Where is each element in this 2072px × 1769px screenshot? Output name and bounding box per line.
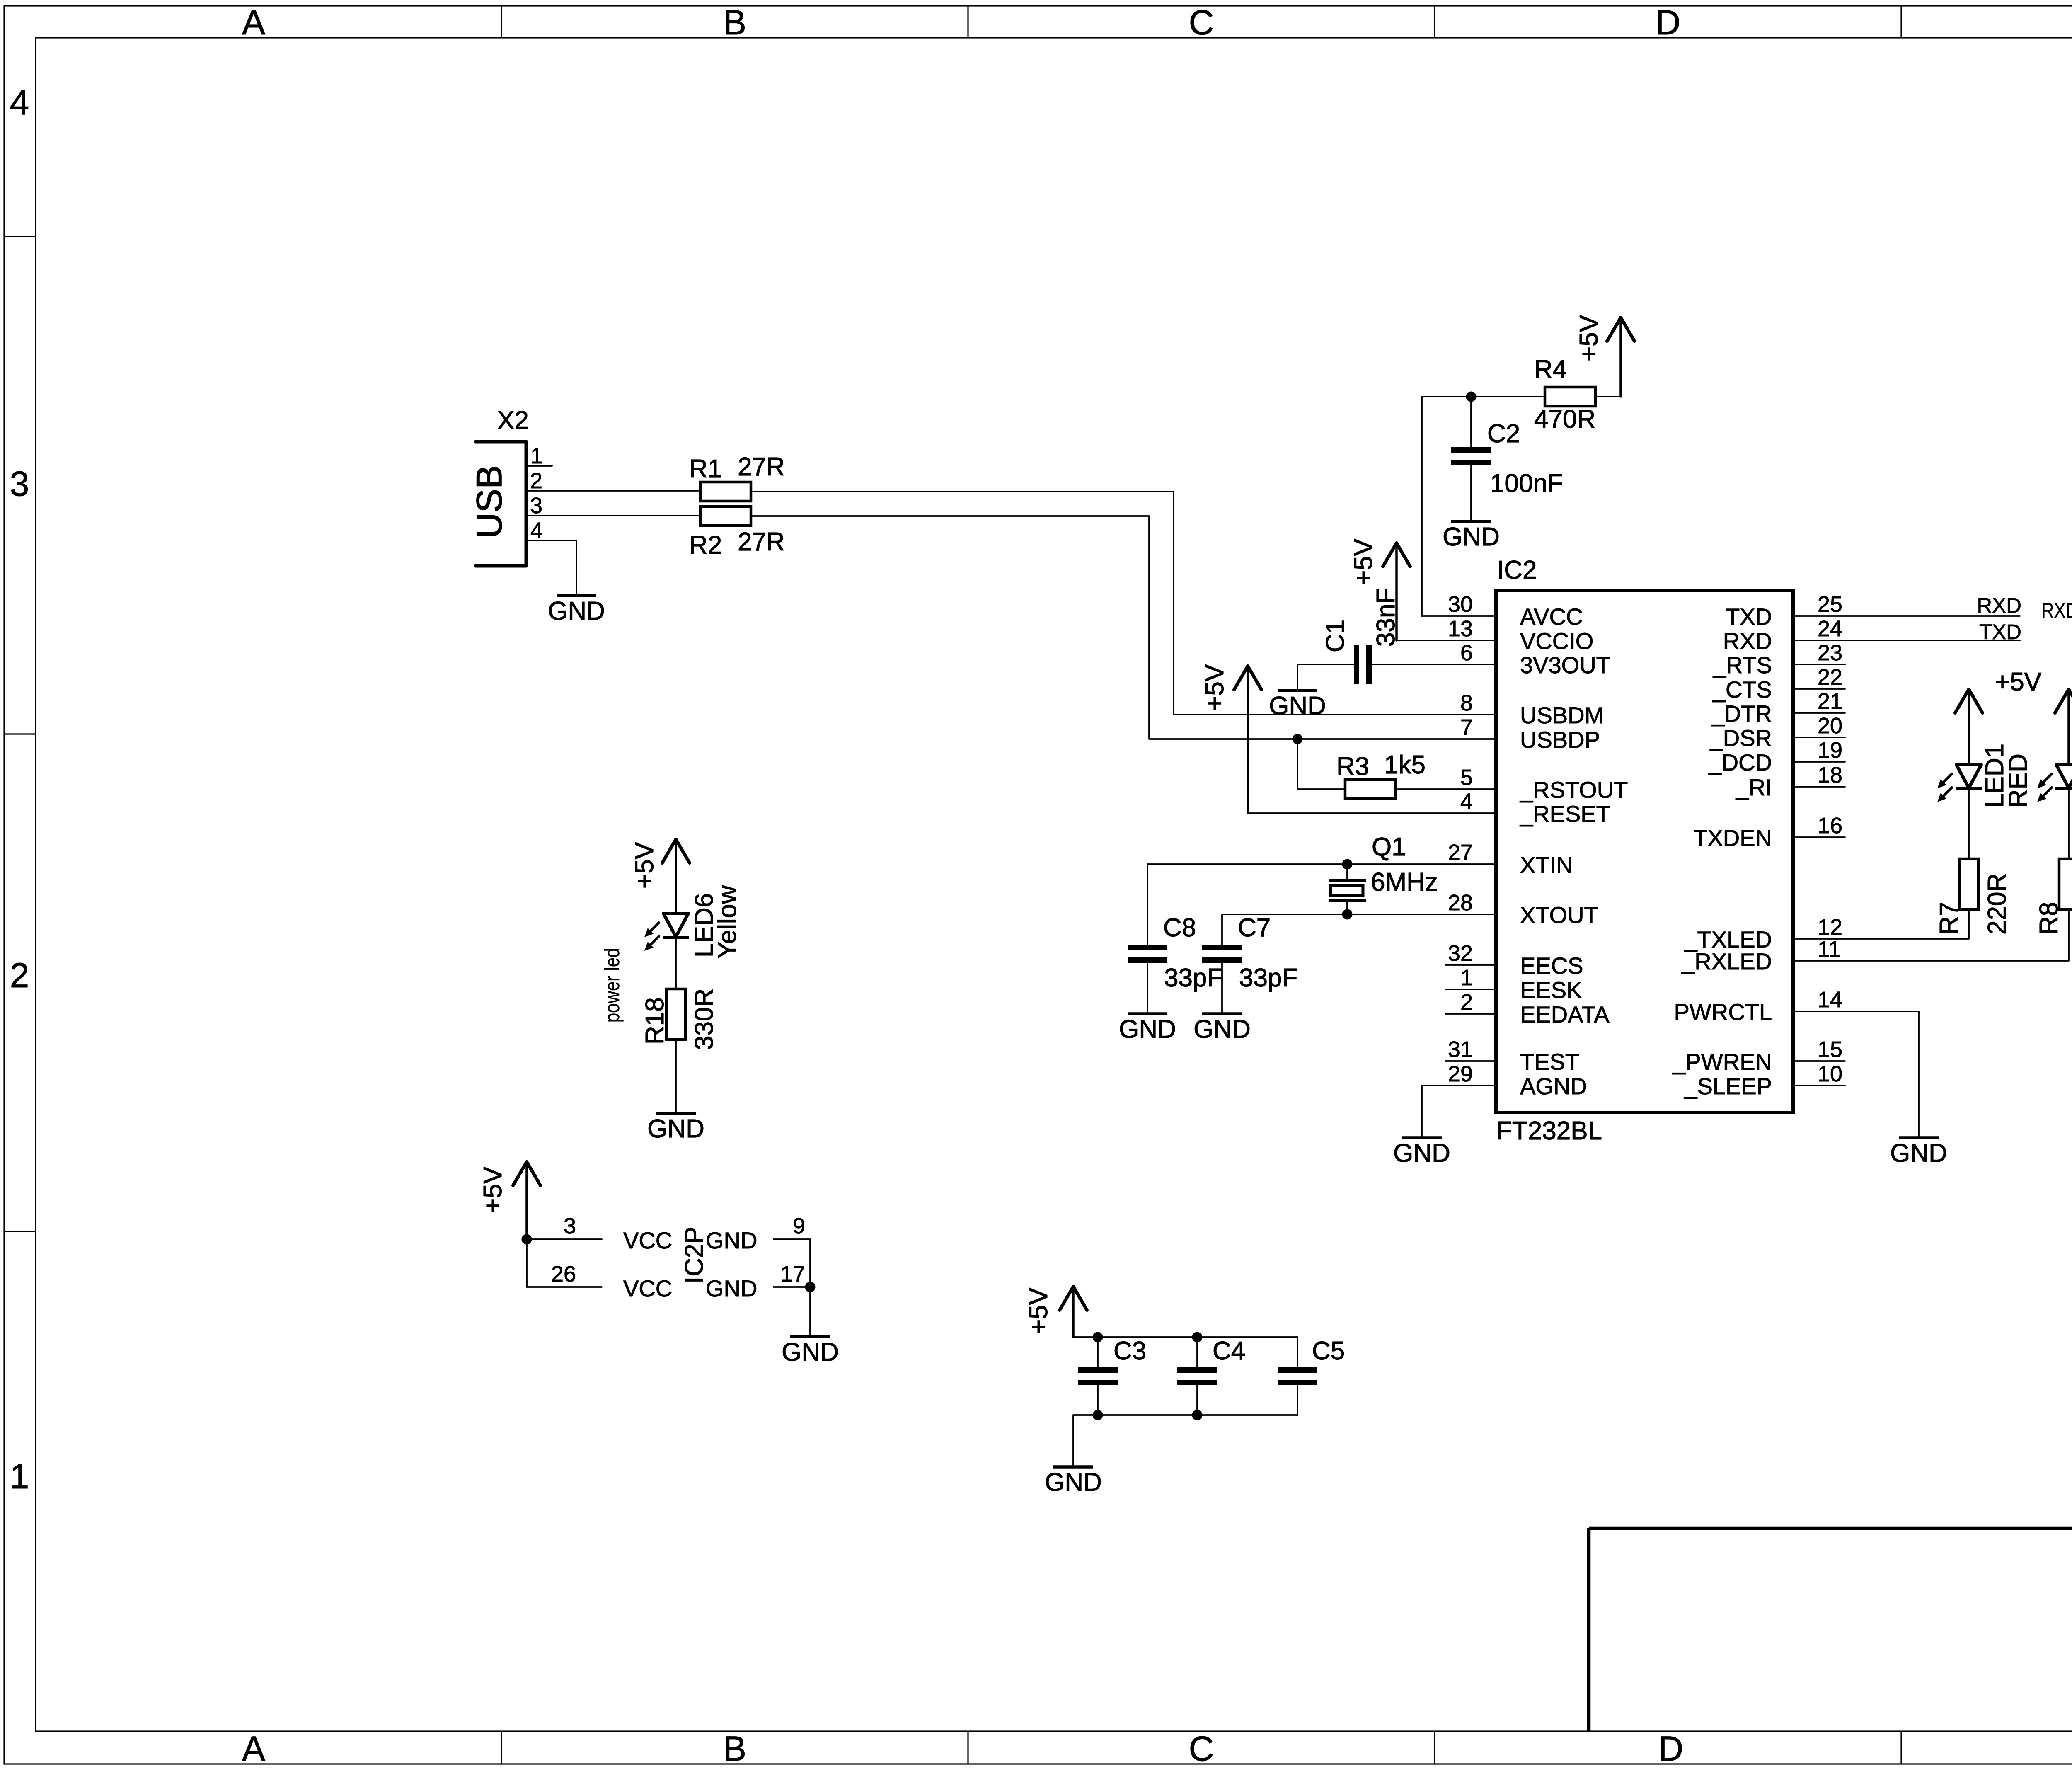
svg-text:4: 4: [1460, 789, 1473, 814]
svg-text:GND: GND: [706, 1227, 757, 1253]
svg-text:10: 10: [1818, 1061, 1842, 1086]
svg-text:TXD: TXD: [1726, 603, 1772, 630]
svg-text:A: A: [242, 3, 265, 42]
svg-text:20: 20: [1818, 713, 1842, 738]
svg-text:VCC: VCC: [623, 1227, 672, 1253]
svg-text:4: 4: [10, 83, 29, 122]
svg-text:R7: R7: [1935, 902, 1963, 935]
svg-text:TXD: TXD: [1979, 620, 2021, 644]
svg-text:33nF: 33nF: [1372, 588, 1400, 647]
svg-text:_RSTOUT: _RSTOUT: [1520, 777, 1628, 803]
svg-text:_CTS: _CTS: [1712, 676, 1772, 703]
svg-text:R2: R2: [689, 531, 722, 560]
svg-text:_RTS: _RTS: [1713, 652, 1772, 678]
svg-text:XTOUT: XTOUT: [1520, 902, 1598, 928]
svg-text:+5V: +5V: [1575, 315, 1603, 361]
svg-text:IC2P: IC2P: [680, 1226, 709, 1284]
svg-text:R3: R3: [1336, 752, 1369, 781]
svg-text:Q1: Q1: [1372, 833, 1406, 861]
svg-text:3: 3: [530, 493, 542, 518]
svg-text:R18: R18: [641, 997, 669, 1044]
svg-text:7: 7: [1460, 715, 1473, 740]
svg-text:D: D: [1658, 1729, 1684, 1767]
svg-text:2: 2: [10, 956, 29, 995]
svg-text:R1: R1: [689, 455, 722, 483]
svg-text:RXD: RXD: [1723, 628, 1772, 654]
svg-text:IC2: IC2: [1497, 556, 1537, 584]
svg-text:27: 27: [1448, 840, 1473, 865]
svg-text:9: 9: [793, 1214, 805, 1238]
svg-text:28: 28: [1448, 890, 1473, 915]
svg-text:_DSR: _DSR: [1710, 725, 1772, 751]
svg-text:RXD: RXD: [1977, 594, 2021, 617]
svg-text:AVCC: AVCC: [1520, 603, 1583, 630]
svg-text:RXD and TXD interchanged: RXD and TXD interchanged: [2041, 599, 2072, 622]
svg-text:31: 31: [1448, 1037, 1473, 1062]
svg-text:+5V: +5V: [1349, 538, 1378, 585]
svg-text:C: C: [1189, 3, 1214, 42]
svg-text:12: 12: [1818, 915, 1842, 940]
svg-text:+5V: +5V: [479, 1166, 507, 1213]
svg-text:330R: 330R: [690, 989, 719, 1050]
svg-text:B: B: [723, 1729, 746, 1767]
svg-text:PWRCTL: PWRCTL: [1674, 999, 1772, 1025]
svg-text:_RXLED: _RXLED: [1681, 948, 1772, 974]
svg-text:17: 17: [780, 1262, 805, 1287]
svg-text:power led: power led: [600, 948, 624, 1023]
svg-text:R8: R8: [2035, 902, 2063, 935]
svg-text:B: B: [723, 3, 746, 42]
svg-text:1: 1: [1460, 965, 1473, 990]
svg-text:3: 3: [564, 1214, 576, 1238]
svg-text:1: 1: [530, 443, 543, 468]
svg-text:5: 5: [1460, 765, 1473, 790]
svg-text:FT232BL: FT232BL: [1496, 1117, 1602, 1145]
svg-text:C8: C8: [1163, 914, 1196, 942]
svg-text:GND: GND: [647, 1115, 704, 1143]
svg-text:C2: C2: [1487, 419, 1520, 448]
svg-text:19: 19: [1818, 738, 1842, 763]
svg-text:25: 25: [1818, 592, 1842, 617]
svg-text:A: A: [242, 1729, 265, 1767]
svg-text:33pF: 33pF: [1239, 964, 1297, 992]
svg-text:_DTR: _DTR: [1711, 700, 1772, 727]
svg-text:USBDM: USBDM: [1520, 702, 1604, 728]
svg-text:C1: C1: [1321, 620, 1350, 652]
svg-text:USB: USB: [470, 465, 509, 538]
svg-text:100nF: 100nF: [1490, 469, 1563, 498]
svg-text:GND: GND: [1269, 692, 1326, 720]
svg-text:D: D: [1656, 3, 1681, 42]
svg-text:4: 4: [530, 518, 543, 543]
svg-text:14: 14: [1818, 987, 1842, 1012]
svg-text:TXDEN: TXDEN: [1693, 825, 1772, 851]
svg-text:1: 1: [10, 1457, 29, 1496]
svg-text:XTIN: XTIN: [1520, 852, 1573, 878]
svg-text:_SLEEP: _SLEEP: [1684, 1073, 1772, 1099]
svg-text:18: 18: [1818, 763, 1842, 788]
svg-text:GND: GND: [1193, 1015, 1251, 1044]
svg-text:+5V: +5V: [1201, 664, 1229, 711]
svg-text:C3: C3: [1113, 1337, 1146, 1365]
svg-text:R4: R4: [1534, 355, 1567, 384]
svg-text:GND: GND: [1443, 523, 1500, 551]
svg-text:X2: X2: [497, 406, 529, 435]
svg-text:C5: C5: [1312, 1337, 1345, 1365]
svg-text:EESK: EESK: [1520, 977, 1582, 1003]
svg-text:_DCD: _DCD: [1709, 749, 1772, 775]
svg-text:VCC: VCC: [623, 1275, 672, 1301]
svg-text:RED: RED: [2004, 754, 2033, 808]
svg-text:15: 15: [1818, 1037, 1842, 1062]
svg-text:8: 8: [1460, 691, 1473, 715]
svg-text:1k5: 1k5: [1384, 751, 1426, 779]
svg-text:21: 21: [1818, 689, 1842, 714]
svg-text:GND: GND: [1890, 1139, 1947, 1168]
svg-text:EECS: EECS: [1520, 952, 1583, 979]
svg-text:6: 6: [1460, 640, 1473, 665]
svg-text:2: 2: [530, 468, 542, 493]
svg-text:33pF: 33pF: [1164, 964, 1222, 992]
svg-text:2: 2: [1460, 990, 1473, 1015]
svg-text:AGND: AGND: [1520, 1073, 1587, 1099]
svg-text:_RESET: _RESET: [1520, 801, 1610, 827]
svg-text:29: 29: [1448, 1061, 1473, 1086]
svg-text:VCCIO: VCCIO: [1520, 628, 1593, 654]
svg-text:27R: 27R: [738, 453, 785, 481]
svg-text:11: 11: [1818, 937, 1841, 962]
svg-text:GND: GND: [782, 1338, 839, 1367]
svg-text:27R: 27R: [738, 528, 785, 556]
svg-text:30: 30: [1448, 592, 1473, 617]
svg-text:_PWREN: _PWREN: [1672, 1049, 1772, 1075]
svg-text:220R: 220R: [1983, 873, 2011, 935]
svg-text:GND: GND: [1393, 1139, 1450, 1168]
svg-text:GND: GND: [706, 1275, 757, 1301]
svg-text:3V3OUT: 3V3OUT: [1520, 652, 1610, 678]
svg-text:GND: GND: [548, 597, 605, 625]
svg-text:+5V: +5V: [1995, 668, 2042, 696]
svg-text:C7: C7: [1238, 914, 1271, 942]
svg-text:USBDP: USBDP: [1520, 727, 1600, 753]
svg-text:470R: 470R: [1534, 405, 1595, 434]
svg-text:C: C: [1189, 1729, 1214, 1767]
svg-text:13: 13: [1448, 616, 1473, 641]
svg-text:+5V: +5V: [1024, 1287, 1053, 1334]
svg-text:Yellow: Yellow: [713, 885, 742, 959]
svg-text:_RI: _RI: [1736, 774, 1772, 800]
svg-text:22: 22: [1818, 665, 1842, 690]
svg-text:24: 24: [1818, 616, 1842, 641]
svg-text:3: 3: [10, 464, 29, 503]
svg-text:16: 16: [1818, 813, 1842, 838]
svg-text:GND: GND: [1119, 1015, 1176, 1044]
svg-text:TEST: TEST: [1520, 1049, 1579, 1075]
svg-text:C4: C4: [1213, 1337, 1245, 1365]
svg-text:+5V: +5V: [630, 842, 659, 889]
svg-text:GND: GND: [1045, 1468, 1102, 1497]
svg-text:23: 23: [1818, 640, 1842, 665]
svg-text:32: 32: [1448, 941, 1473, 966]
svg-text:6MHz: 6MHz: [1371, 868, 1438, 897]
svg-text:EEDATA: EEDATA: [1520, 1001, 1610, 1027]
svg-text:26: 26: [551, 1262, 576, 1287]
